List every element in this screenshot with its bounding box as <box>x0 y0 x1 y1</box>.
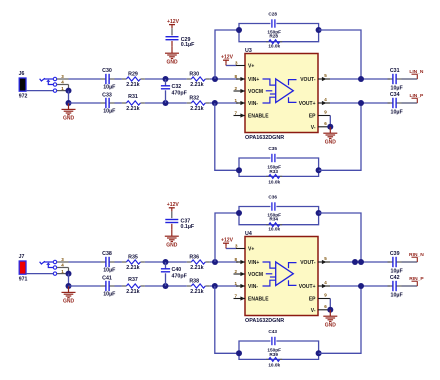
svg-text:972: 972 <box>19 94 28 100</box>
svg-text:10.0k: 10.0k <box>268 227 280 232</box>
node lower rail junction <box>66 100 72 106</box>
ground jack GND <box>68 286 70 292</box>
wire lower rail segment 1 <box>69 285 101 287</box>
svg-text:2.21k: 2.21k <box>190 82 203 88</box>
ground C37 GND <box>171 230 173 236</box>
node VOUT- junction <box>358 259 364 265</box>
wire C34 to LIN_P <box>402 102 418 104</box>
node VOUT+ junction <box>358 100 364 106</box>
capacitor C28 <box>271 19 273 27</box>
resistor R29 <box>122 78 127 80</box>
wire C29 to ground <box>171 41 173 47</box>
J7 tip switch symbol <box>40 261 45 264</box>
svg-text:470pF: 470pF <box>172 273 188 279</box>
node lower rail junction <box>66 283 72 289</box>
svg-text:10µF: 10µF <box>391 268 404 274</box>
node LIN_N net label <box>412 73 418 75</box>
svg-text:10µF: 10µF <box>103 109 116 115</box>
svg-text:R29: R29 <box>128 71 138 77</box>
svg-text:VIN-: VIN- <box>248 101 258 107</box>
svg-text:U3: U3 <box>245 48 252 54</box>
wire feedback loop C35/R33 frame <box>239 158 270 170</box>
svg-text:VOUT-: VOUT- <box>300 260 316 266</box>
capacitor C41 <box>101 285 106 287</box>
resistor R34 <box>266 224 269 226</box>
J7 pin 1 contact <box>53 272 56 275</box>
svg-text:GND: GND <box>325 139 337 145</box>
svg-text:R39: R39 <box>269 352 278 357</box>
svg-text:R33: R33 <box>269 169 278 174</box>
J6 tip switch symbol <box>40 78 45 81</box>
connector J6 body <box>19 78 26 91</box>
svg-text:10.0k: 10.0k <box>268 179 280 184</box>
node C36 right junction <box>316 210 322 216</box>
svg-text:RIN_P: RIN_P <box>409 276 424 282</box>
svg-text:GND: GND <box>63 299 75 305</box>
capacitor C43 <box>271 337 273 345</box>
svg-text:J7: J7 <box>19 254 25 260</box>
node LIN_P net label <box>412 97 418 99</box>
svg-text:2.21k: 2.21k <box>126 265 139 271</box>
svg-text:C33: C33 <box>102 93 112 99</box>
ground U4 GND <box>329 310 331 316</box>
wire VOUT- to output cap <box>330 78 390 80</box>
svg-text:R38: R38 <box>189 278 199 284</box>
node upper feedback tap <box>212 259 218 265</box>
wire upper feedback left riser <box>215 30 239 79</box>
svg-text:RIN_N: RIN_N <box>409 252 424 258</box>
svg-text:10.0k: 10.0k <box>268 44 280 49</box>
svg-text:2.21k: 2.21k <box>190 289 203 295</box>
wire jack pin1 down to lower rail <box>68 274 70 286</box>
node U3 V- junction <box>327 124 333 130</box>
U4 pin 2 VOCM stub <box>234 273 246 275</box>
wire lower feedback right link <box>319 286 361 353</box>
wire upper rail segment 2 <box>115 261 122 263</box>
resistor R35 <box>122 261 127 263</box>
U3 pin 2 VOCM stub <box>234 90 246 92</box>
wire VOUT+ to output cap <box>330 285 390 287</box>
svg-text:10.0k: 10.0k <box>268 362 280 367</box>
wire upper feedback left riser <box>215 213 239 262</box>
svg-text:V-: V- <box>311 125 316 131</box>
wire lower feedback right link <box>319 103 361 170</box>
svg-text:VIN+: VIN+ <box>248 77 259 83</box>
resistor R33 <box>266 175 269 177</box>
wire VOUT+ to output cap <box>330 102 390 104</box>
node C35 left junction <box>236 167 242 173</box>
svg-text:2.21k: 2.21k <box>126 289 139 295</box>
svg-text:10µF: 10µF <box>103 292 116 298</box>
svg-text:R35: R35 <box>128 254 138 260</box>
wire feedback loop C36/R34 frame <box>239 207 270 214</box>
capacitor C40 <box>165 262 167 269</box>
svg-text:C31: C31 <box>390 68 400 74</box>
resistor R32 <box>187 102 192 104</box>
J7 pin 4 contact <box>53 266 56 269</box>
svg-text:971: 971 <box>19 277 28 283</box>
svg-text:C36: C36 <box>268 195 277 200</box>
capacitor C31 <box>388 78 393 80</box>
wire VOUT- to output cap <box>330 261 390 263</box>
node C43 left junction <box>236 350 242 356</box>
U4 pin 9 EP stub <box>318 298 330 300</box>
node jack ground junction <box>66 88 72 94</box>
svg-text:VOUT+: VOUT+ <box>299 101 316 107</box>
wire upper rail segment 1 <box>69 78 101 80</box>
ground U3 GND <box>329 127 331 133</box>
node lower filter junction <box>163 100 169 106</box>
U4 pin 8 VIN+ stub <box>236 261 245 263</box>
U3 pin 3 V+ stub <box>236 65 245 67</box>
capacitor C38 <box>101 261 106 263</box>
resistor R39 <box>266 358 269 360</box>
svg-text:2.21k: 2.21k <box>190 106 203 112</box>
svg-text:VOUT+: VOUT+ <box>299 284 316 290</box>
wire C39 to RIN_N <box>402 261 418 263</box>
node lower filter junction <box>163 283 169 289</box>
svg-text:C39: C39 <box>390 251 400 257</box>
svg-text:GND: GND <box>325 322 337 328</box>
node jack ground junction <box>66 271 72 277</box>
resistor R28 <box>266 41 269 43</box>
node U4 V- junction <box>327 307 333 313</box>
svg-text:10µF: 10µF <box>103 268 116 274</box>
J7 pin 3 contact <box>53 260 56 263</box>
svg-text:R37: R37 <box>128 277 138 283</box>
node upper filter junction <box>163 76 169 82</box>
node VOUT- extra junction <box>352 259 358 265</box>
U4 pin 3 V+ stub <box>236 248 245 250</box>
wire feedback loop C43/R39 frame <box>239 341 270 353</box>
wire J6 sleeve to pin 1 <box>26 90 53 92</box>
capacitor C29 <box>166 36 179 38</box>
U3 pin 1 VIN- stub <box>236 102 245 104</box>
svg-text:V-: V- <box>311 308 316 314</box>
U3 pin 9 EP stub <box>318 115 330 117</box>
svg-text:2.21k: 2.21k <box>190 265 203 271</box>
op-amp U3 OPA1632 body <box>245 54 318 133</box>
wire lower rail segment 3 <box>145 285 187 287</box>
resistor R31 <box>122 102 127 104</box>
wire jack pin1 down to lower rail <box>68 91 70 103</box>
svg-text:C28: C28 <box>268 12 277 17</box>
U3 pin 7 ENABLE stub <box>234 115 246 117</box>
svg-text:VOCM: VOCM <box>248 89 263 95</box>
resistor R36 <box>187 261 192 263</box>
capacitor C34 <box>388 102 393 104</box>
wire lower rail segment 4 <box>210 102 238 104</box>
svg-text:R28: R28 <box>269 33 278 38</box>
capacitor C39 <box>388 261 393 263</box>
U3 amplifier symbol <box>276 79 294 103</box>
U3 pin 6 V- stub <box>318 126 330 128</box>
node VOUT+ junction <box>358 283 364 289</box>
wire feedback loop C28/R28 frame <box>239 24 270 31</box>
resistor R37 <box>122 285 127 287</box>
svg-text:EP: EP <box>309 114 316 120</box>
wire C37 to ground <box>171 224 173 230</box>
svg-text:0.1µF: 0.1µF <box>181 224 195 230</box>
capacitor C37 <box>165 219 178 221</box>
svg-text:R36: R36 <box>189 254 199 260</box>
svg-text:R30: R30 <box>189 71 199 77</box>
node lower feedback tap <box>212 100 218 106</box>
svg-text:C30: C30 <box>102 68 112 74</box>
svg-text:10µF: 10µF <box>391 292 404 298</box>
svg-text:10µF: 10µF <box>391 85 404 91</box>
wire +12V to C29 <box>171 28 173 35</box>
wire lower rail segment 2 <box>115 102 122 104</box>
capacitor C35 <box>271 154 273 162</box>
U4 pin 6 V- stub <box>318 309 330 311</box>
svg-text:J6: J6 <box>19 71 25 77</box>
svg-text:C40: C40 <box>172 267 182 273</box>
U4 pin 5 VOUT- stub <box>318 261 330 263</box>
wire upper rail segment 1 <box>69 261 101 263</box>
node VOUT- junction <box>358 76 364 82</box>
svg-text:LIN_N: LIN_N <box>409 69 424 75</box>
ground jack GND <box>68 103 70 109</box>
wire lower rail segment 1 <box>69 102 101 104</box>
connector J7 body <box>19 261 26 274</box>
svg-text:C38: C38 <box>102 251 112 257</box>
capacitor C42 <box>388 285 393 287</box>
svg-text:0.1µF: 0.1µF <box>181 42 195 48</box>
svg-text:VOUT-: VOUT- <box>300 77 316 83</box>
svg-text:EP: EP <box>309 297 316 303</box>
U3 pin 4 VOUT+ stub <box>318 102 330 104</box>
svg-text:C43: C43 <box>268 329 277 334</box>
wire +12V to C37 <box>171 211 173 218</box>
svg-text:GND: GND <box>166 59 178 65</box>
node C35 right junction <box>316 167 322 173</box>
svg-text:OPA1632DGNR: OPA1632DGNR <box>245 135 284 141</box>
capacitor C32 <box>165 79 167 86</box>
resistor R30 <box>187 78 192 80</box>
svg-text:R31: R31 <box>128 94 138 100</box>
wire upper rail segment 4 <box>210 78 238 80</box>
node RIN_N net label <box>412 256 418 258</box>
wire upper rail segment 4 <box>210 261 238 263</box>
svg-text:2.21k: 2.21k <box>126 106 139 112</box>
wire lower feedback left riser <box>215 286 239 353</box>
svg-text:C41: C41 <box>102 276 112 282</box>
svg-text:OPA1632DGNR: OPA1632DGNR <box>245 318 284 324</box>
U4 pin 1 VIN- stub <box>236 285 245 287</box>
svg-text:10µF: 10µF <box>391 109 404 115</box>
resistor R38 <box>187 285 192 287</box>
U4 amplifier symbol <box>276 262 294 286</box>
svg-text:10µF: 10µF <box>103 85 116 91</box>
wire J7 sleeve to pin 1 <box>26 273 53 275</box>
node upper filter junction <box>163 259 169 265</box>
svg-text:C34: C34 <box>390 92 400 98</box>
wire upper rail segment 3 <box>145 78 187 80</box>
wire lower rail segment 2 <box>115 285 122 287</box>
svg-text:2.21k: 2.21k <box>126 82 139 88</box>
node upper feedback tap <box>212 76 218 82</box>
svg-text:VIN+: VIN+ <box>248 260 259 266</box>
node C28 left junction <box>236 27 242 33</box>
svg-text:ENABLE: ENABLE <box>248 297 269 303</box>
op-amp U4 OPA1632 body <box>245 237 318 316</box>
svg-text:R34: R34 <box>269 216 278 221</box>
wire upper feedback right link <box>319 30 361 79</box>
svg-text:ENABLE: ENABLE <box>248 114 269 120</box>
U4 pin 4 VOUT+ stub <box>318 285 330 287</box>
wire upper rail segment 3 <box>145 261 187 263</box>
svg-text:V+: V+ <box>248 247 254 253</box>
svg-text:470pF: 470pF <box>172 90 188 96</box>
capacitor C33 <box>101 102 106 104</box>
wire C42 to RIN_P <box>402 285 418 287</box>
node C36 left junction <box>236 210 242 216</box>
node RIN_P net label <box>412 280 418 282</box>
svg-text:R32: R32 <box>189 95 199 101</box>
svg-text:VOCM: VOCM <box>248 272 263 278</box>
svg-text:V+: V+ <box>248 64 254 70</box>
wire upper rail segment 2 <box>115 78 122 80</box>
wire lower feedback left riser <box>215 103 239 170</box>
node C28 right junction <box>316 27 322 33</box>
node lower feedback tap <box>212 283 218 289</box>
svg-text:GND: GND <box>166 242 178 248</box>
svg-text:LIN_P: LIN_P <box>409 93 424 99</box>
J6 pin 4 contact <box>53 83 56 86</box>
svg-text:C42: C42 <box>390 275 400 281</box>
node C43 right junction <box>316 350 322 356</box>
svg-text:VIN-: VIN- <box>248 284 258 290</box>
J6 pin 3 contact <box>53 77 56 80</box>
J6 pin 1 contact <box>53 89 56 92</box>
svg-text:C32: C32 <box>172 84 182 90</box>
capacitor C30 <box>101 78 106 80</box>
U3 pin 8 VIN+ stub <box>236 78 245 80</box>
svg-text:C35: C35 <box>268 146 277 151</box>
wire lower rail segment 3 <box>145 102 187 104</box>
capacitor C36 <box>271 202 273 210</box>
svg-text:U4: U4 <box>245 231 252 237</box>
ground C29 GND <box>171 47 173 53</box>
wire upper feedback right link <box>319 213 361 262</box>
U3 pin 5 VOUT- stub <box>318 78 330 80</box>
svg-text:GND: GND <box>63 116 75 122</box>
wire lower rail segment 4 <box>210 285 238 287</box>
wire C31 to LIN_N <box>402 78 418 80</box>
U4 pin 7 ENABLE stub <box>234 298 246 300</box>
